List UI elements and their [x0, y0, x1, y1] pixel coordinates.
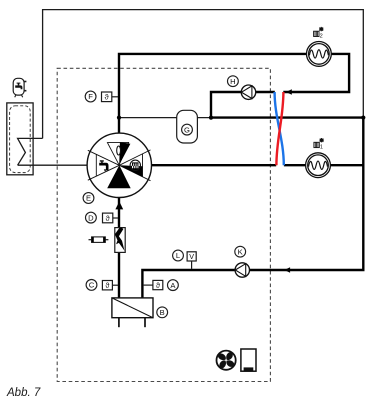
arrow left on bottom return line: [284, 267, 290, 272]
fan symbol: [215, 349, 238, 372]
sensor square D: [103, 213, 119, 223]
svg-text:1: 1: [320, 144, 323, 150]
svg-text:E: E: [86, 194, 91, 203]
arrow up on valve feed pipe: [115, 201, 123, 209]
blue crossover pipe: [275, 92, 284, 165]
svg-text:ϑ: ϑ: [105, 281, 109, 290]
junction dot at pump-H branch: [209, 116, 213, 120]
valve E body: [87, 133, 151, 197]
wire thick return line to right edge: [211, 116, 363, 118]
junction dot at valve riser / G line: [117, 116, 121, 120]
heat pump B box: [112, 298, 153, 327]
wire thin pipe loop from tank coil up across top and down right side: [43, 10, 364, 139]
wire central pipe below valve to heat pump B: [118, 197, 120, 298]
svg-text:F: F: [88, 92, 93, 101]
control unit icon: [241, 349, 256, 371]
svg-text:D: D: [88, 213, 94, 222]
wire thick flow pipe: valve top up, across top, down to pump-H line: [119, 54, 349, 135]
tank heat exchanger coil: [18, 138, 43, 165]
valve top white triangle: [107, 142, 128, 165]
svg-text:Abb. 7: Abb. 7: [6, 387, 41, 399]
valve left triangle with tap: [88, 150, 120, 180]
label H: [228, 76, 239, 87]
wire pump-H branch: [211, 92, 275, 118]
wire thin line through booster G: [119, 117, 211, 119]
valve bottom black triangle: [107, 165, 131, 188]
svg-text:C: C: [89, 281, 95, 290]
flow sensor V square: [187, 252, 196, 269]
pump H: [241, 85, 255, 99]
svg-text:K: K: [238, 247, 243, 256]
booster heater G pill: [177, 110, 198, 143]
svg-text:ϑ: ϑ: [105, 93, 109, 102]
valve top black triangle: [119, 142, 130, 165]
sensor square F: [102, 92, 119, 102]
wire heating circuit 1 line right part: [284, 164, 363, 166]
dashed system boundary: [57, 68, 270, 381]
svg-text:V: V: [189, 252, 194, 261]
valve position oval: [117, 146, 121, 155]
valve heating-mode circle icon: [130, 160, 140, 170]
svg-text:2: 2: [320, 33, 323, 39]
label A: [168, 280, 179, 291]
heating circuit 2 consumer: [307, 42, 332, 67]
fuse / heating element symbol: [89, 237, 109, 243]
sensor square A: [144, 280, 163, 290]
svg-text:B: B: [160, 308, 165, 317]
wire tank to valve: [18, 164, 89, 166]
svg-text:ϑ: ϑ: [156, 281, 160, 290]
label C: [86, 280, 97, 291]
pump K: [235, 263, 249, 277]
valve right triangle: [119, 150, 150, 181]
DHW tank: [7, 103, 33, 175]
heating circuit 2 label: [314, 27, 324, 39]
svg-text:ϑ: ϑ: [106, 214, 110, 223]
tank inner dashed vessel: [10, 106, 31, 173]
wire heating circuit 1 line left part: [151, 164, 276, 166]
svg-text:L: L: [176, 251, 180, 260]
label G: [182, 124, 193, 135]
electric flow heater with lightning: [115, 228, 125, 253]
heating circuit 1 label: [314, 138, 324, 150]
DHW tap icon above tank: [13, 78, 26, 97]
wire thick right side down and bottom return: [142, 118, 363, 298]
label B: [157, 307, 168, 318]
arrow left on pump-H line: [286, 89, 292, 94]
svg-text:H: H: [230, 77, 235, 86]
label E: [83, 193, 94, 204]
label L: [173, 250, 184, 261]
svg-text:G: G: [184, 125, 190, 134]
label F: [85, 91, 96, 102]
label K: [235, 246, 246, 257]
junction dot at right edge: [361, 116, 365, 120]
heating circuit 1 consumer: [306, 153, 331, 178]
label D: [86, 212, 97, 223]
sensor square C: [102, 281, 118, 291]
red crossover pipe: [276, 92, 283, 165]
